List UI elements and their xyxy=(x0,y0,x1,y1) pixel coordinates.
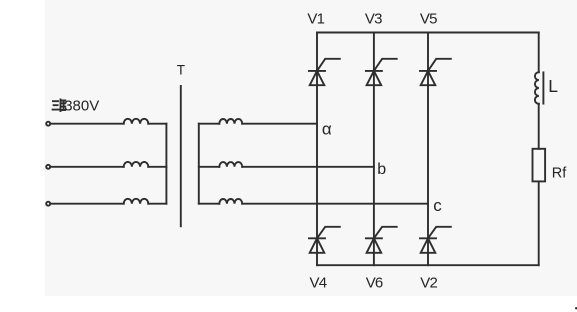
thyristor V1 xyxy=(309,59,340,85)
resistor Rf body xyxy=(533,149,546,182)
label 三相 (three-phase) xyxy=(53,100,66,112)
secondary winding b xyxy=(219,162,242,167)
secondary winding c xyxy=(219,199,242,204)
svg-text:380V: 380V xyxy=(64,97,99,114)
transformer core xyxy=(180,86,182,226)
svg-text:T: T xyxy=(177,63,185,78)
svg-text:V3: V3 xyxy=(365,10,382,27)
terminal phase 2 xyxy=(46,165,50,169)
wire secondary b left xyxy=(199,166,220,168)
thyristor V3 xyxy=(366,59,397,85)
bottom DC bus xyxy=(317,264,539,266)
secondary winding a xyxy=(219,119,242,124)
wire branch V3/V6 xyxy=(373,33,375,266)
primary star bus xyxy=(165,124,167,204)
svg-text:V2: V2 xyxy=(420,274,437,291)
thyristor V6 xyxy=(366,227,397,253)
inductor L core bar xyxy=(542,72,544,103)
thyristor V5 xyxy=(420,59,451,85)
svg-text:Rf: Rf xyxy=(552,165,567,181)
wire node c xyxy=(242,203,428,205)
top DC bus xyxy=(317,32,539,34)
wire node b xyxy=(242,166,374,168)
svg-text:V5: V5 xyxy=(420,10,437,27)
wire phase 3 primary left xyxy=(50,203,124,205)
inductor L winding xyxy=(535,72,539,104)
svg-text:V4: V4 xyxy=(310,274,327,291)
terminal phase 3 xyxy=(46,202,50,206)
wire secondary c left xyxy=(199,203,220,205)
secondary star bus xyxy=(198,124,200,204)
svg-text:V1: V1 xyxy=(307,10,324,27)
terminal phase 1 xyxy=(46,122,50,126)
corner artifact mark xyxy=(575,307,577,309)
svg-text:b: b xyxy=(377,161,386,178)
wire phase 1 primary right xyxy=(148,123,166,125)
primary winding phase 1 xyxy=(124,119,149,124)
wire phase 2 primary left xyxy=(50,166,124,168)
wire node a xyxy=(242,123,317,125)
svg-text:α: α xyxy=(322,120,332,139)
wire secondary a left xyxy=(199,123,220,125)
wire branch V5/V2 xyxy=(427,33,429,266)
wire load bottom xyxy=(538,181,540,265)
wire phase 2 primary right xyxy=(148,166,166,168)
thyristor V4 xyxy=(309,227,340,253)
primary winding phase 2 xyxy=(124,162,149,167)
primary winding phase 3 xyxy=(124,199,149,204)
svg-text:V6: V6 xyxy=(366,274,383,291)
wire load top xyxy=(538,33,540,73)
wire phase 1 primary left xyxy=(50,123,124,125)
wire load middle xyxy=(538,104,540,149)
wire phase 3 primary right xyxy=(148,203,166,205)
svg-text:c: c xyxy=(433,196,442,215)
svg-text:L: L xyxy=(548,76,558,96)
wire branch V1/V4 xyxy=(316,33,318,266)
thyristor V2 xyxy=(420,227,451,253)
